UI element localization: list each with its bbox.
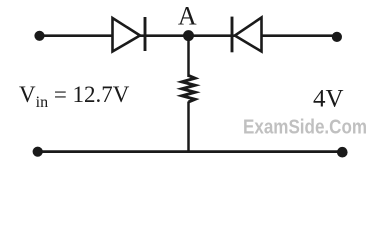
svg-text:Vin = 12.7V: Vin = 12.7V (19, 82, 130, 111)
terminal top-right (332, 32, 342, 42)
bottom wire (38, 150, 343, 153)
diode D2 (right, cathode left / anode right) (232, 17, 262, 53)
svg-text:4V: 4V (313, 86, 344, 113)
node A junction dot (183, 30, 194, 41)
terminal bottom-right (337, 147, 348, 158)
wire (node A to resistor) (187, 36, 190, 78)
resistor R1 (182, 76, 195, 103)
terminal top-left (34, 31, 44, 41)
terminal bottom-left (33, 147, 43, 157)
svg-text:A: A (178, 2, 197, 31)
svg-text:ExamSide.Com: ExamSide.Com (243, 116, 367, 139)
diode D1 (left, anode left / cathode right) (113, 17, 146, 52)
top wire (40, 34, 338, 37)
wire (resistor to bottom) (187, 102, 190, 152)
